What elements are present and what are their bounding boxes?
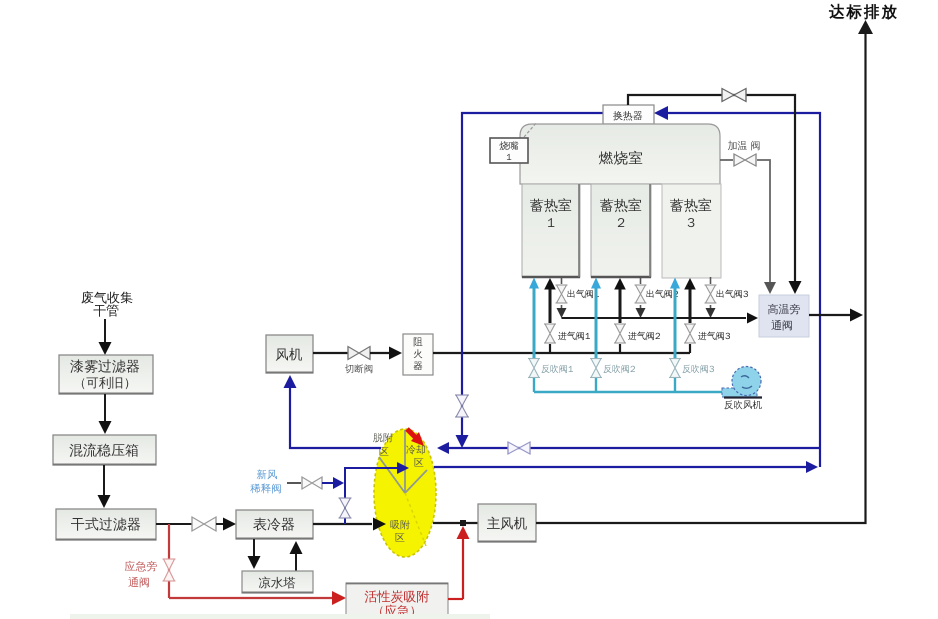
valve 出气阀1 (556, 285, 568, 303)
wire 切断阀 to 阻火器 (370, 347, 402, 360)
wire cooling-zone supply: HX left down to wheel line (456, 113, 604, 448)
svg-text:应急旁: 应急旁 (125, 560, 158, 574)
valve 新风稀释阀 (302, 477, 322, 489)
svg-text:阻: 阻 (413, 336, 423, 348)
wire 加温阀 line (720, 160, 776, 294)
svg-text:进气阀3: 进气阀3 (697, 330, 731, 342)
valve 应急旁通阀 on red line (163, 559, 176, 581)
wire wheel to 主风机 (433, 522, 478, 524)
svg-text:加温 阀: 加温 阀 (728, 139, 761, 152)
wire inlet branch 3 (684, 278, 696, 353)
box 高温旁通阀 (759, 295, 809, 337)
node 应急旁通阀 label (125, 560, 158, 590)
svg-text:反吹阀1: 反吹阀1 (541, 363, 573, 375)
svg-text:出气阀3: 出气阀3 (716, 288, 749, 300)
filter box 干式过滤器 (56, 509, 156, 540)
svg-text:稀释阀: 稀释阀 (250, 483, 282, 496)
valve on top bypass (722, 89, 746, 102)
box 蓄热室3 (662, 184, 721, 278)
box 烧嘴1 (490, 122, 537, 163)
valve 出气阀3 (705, 285, 717, 303)
svg-text:换热器: 换热器 (613, 109, 643, 122)
box 表冷器 (236, 510, 313, 539)
svg-text:器: 器 (413, 360, 423, 372)
node 脱附区 label (373, 431, 393, 458)
wire 主风机 to stack (536, 34, 866, 523)
valve on blue downcomer (455, 395, 469, 417)
wire purge header to blower (534, 391, 724, 394)
valve 进气阀1 (544, 324, 556, 343)
wire red bypass to 活性炭吸附 (169, 591, 346, 605)
box 混流稳压箱 (53, 435, 156, 465)
wire 废气收集干管 to 漆雾过滤器 (99, 319, 112, 355)
box RTO 燃烧室 outer (520, 124, 720, 184)
svg-text:1: 1 (506, 151, 511, 163)
svg-text:干式过滤器: 干式过滤器 (71, 517, 141, 534)
wire 混流稳压箱 to 干式过滤器 (98, 465, 111, 508)
wire inlet branch 2 (614, 278, 626, 353)
fan box 主风机 (478, 504, 536, 542)
svg-text:区: 区 (414, 456, 424, 469)
valve 反吹阀1 (528, 359, 540, 378)
wire outlet branch 3 (706, 277, 716, 318)
svg-text:混流稳压箱: 混流稳压箱 (68, 443, 139, 460)
wire 新风 label to valve (287, 482, 301, 484)
svg-text:火: 火 (413, 348, 423, 360)
svg-text:凉水塔: 凉水塔 (258, 575, 296, 591)
box 活性炭吸附(应急) (346, 583, 448, 619)
wire wheel cooling out to riser (434, 461, 818, 473)
svg-text:反吹风机: 反吹风机 (724, 399, 763, 411)
arrow dilution into wheel (397, 462, 409, 474)
valve 进气阀3 (684, 324, 696, 343)
node junction red/black (460, 520, 466, 526)
svg-text:脱附: 脱附 (373, 431, 393, 444)
valve between 干式过滤器 and 表冷器 (192, 517, 216, 531)
box 蓄热室1 (522, 184, 580, 277)
valve on dilution vertical (339, 498, 352, 518)
svg-text:达标排放: 达标排放 (828, 2, 899, 22)
svg-text:风机: 风机 (276, 347, 304, 364)
wire purge branch 3 (670, 278, 680, 393)
box 换热器 (603, 105, 654, 124)
svg-text:通阀: 通阀 (128, 576, 150, 590)
svg-text:进气阀1: 进气阀1 (557, 330, 590, 342)
arrow stack top 达标排放 (858, 20, 873, 34)
wire 活性炭吸附 to main line (red) (448, 526, 470, 599)
svg-text:吸附: 吸附 (390, 518, 410, 531)
node 新风稀释阀 label (250, 469, 282, 496)
svg-text:通阀: 通阀 (771, 319, 793, 333)
valve 加温阀 (734, 154, 756, 166)
svg-text:漆雾过滤器: 漆雾过滤器 (70, 359, 140, 376)
node 废气收集干管 label (81, 289, 133, 319)
wire purge branch 2 (591, 278, 601, 393)
valve 出气阀2 (635, 285, 647, 303)
svg-text:冷却: 冷却 (406, 443, 426, 456)
wire 表冷器 down to 凉水塔 (248, 539, 261, 569)
wire 表冷器 to wheel adsorption (313, 518, 386, 531)
svg-text:3: 3 (687, 214, 695, 231)
svg-text:蓄热室: 蓄热室 (530, 198, 572, 215)
svg-text:1: 1 (547, 214, 555, 231)
valve 进气阀2 (614, 324, 626, 343)
svg-text:反吹阀2: 反吹阀2 (603, 363, 635, 375)
valve 反吹阀2 (590, 359, 602, 378)
wheel 沸石转轮 (yellow rotor) (374, 429, 436, 557)
blower 反吹风机 (722, 367, 762, 398)
svg-text:反吹阀3: 反吹阀3 (682, 363, 715, 375)
svg-text:主风机: 主风机 (487, 516, 528, 533)
wire fresh air into dilution pipe (322, 477, 344, 489)
svg-text:（可利旧）: （可利旧） (74, 375, 137, 391)
node 冷却区 label (406, 443, 426, 469)
wire outlet header to 高温旁通阀 (562, 313, 759, 324)
wire dilution vertical pipe (345, 468, 398, 524)
node 吸附区 label (390, 518, 410, 544)
wire valve to 表冷器 (216, 518, 236, 531)
wire bypass HX top to 高温旁通阀 (628, 95, 802, 294)
filter box 漆雾过滤器(可利旧) (59, 355, 153, 394)
svg-text:燃烧室: 燃烧室 (598, 150, 644, 168)
valve 反吹阀3 (669, 359, 681, 378)
box 凉水塔 (242, 571, 313, 593)
svg-text:切断阀: 切断阀 (345, 363, 374, 375)
svg-text:进气阀2: 进气阀2 (627, 330, 660, 342)
wire emergency bypass red vertical (168, 524, 170, 598)
box 蓄热室2 (591, 184, 651, 277)
fan box 风机 (266, 335, 313, 373)
valve on cooling line (508, 442, 530, 454)
svg-text:蓄热室: 蓄热室 (670, 198, 712, 215)
wire blue riser to HX (654, 106, 820, 467)
svg-text:新风: 新风 (257, 469, 279, 482)
svg-text:表冷器: 表冷器 (253, 517, 295, 534)
wire 风机 to 切断阀 (313, 352, 348, 354)
wire outlet branch 2 (636, 277, 646, 318)
svg-text:2: 2 (617, 214, 625, 231)
wire 漆雾过滤器 to 混流稳压箱 (99, 394, 112, 434)
valve 切断阀 (348, 347, 370, 360)
svg-text:蓄热室: 蓄热室 (600, 198, 642, 215)
wire into wheel cooling zone (437, 442, 820, 454)
wire purge branch 1 (529, 278, 539, 393)
wire 干式过滤器 to valve (156, 523, 192, 525)
wire 高温旁通阀 to stack (809, 309, 863, 322)
wire inlet header 阻火器 to chambers (433, 352, 690, 354)
svg-text:高温旁: 高温旁 (768, 303, 801, 317)
wire 凉水塔 up to 表冷器 (290, 541, 303, 571)
wire outlet branch 1 (557, 277, 567, 318)
svg-text:干管: 干管 (93, 302, 119, 319)
wheel rotation arrow (red) (407, 429, 424, 446)
wire inlet branch 1 (544, 278, 556, 353)
box 阻火器 (403, 334, 433, 375)
wire wheel desorption out to 风机 (284, 375, 382, 448)
svg-text:区: 区 (395, 531, 405, 544)
